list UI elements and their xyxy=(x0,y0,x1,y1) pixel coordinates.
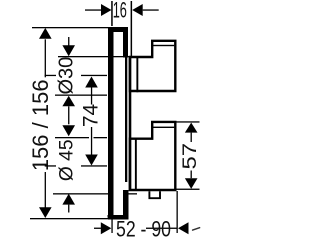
dim 52-90 right tail xyxy=(193,228,200,230)
bottom handle grip seam xyxy=(152,127,174,128)
dim 52-90 left tail xyxy=(94,228,101,229)
dim 16 left extension line xyxy=(111,1,113,26)
svg-text:Ø30: Ø30 xyxy=(56,57,78,95)
svg-text:57: 57 xyxy=(178,143,200,170)
dim 74 line lower xyxy=(91,127,92,155)
dim d30 top tail xyxy=(68,37,69,46)
dim d30 top extension line xyxy=(58,56,129,57)
dim d45 bottom arrow xyxy=(62,194,75,205)
svg-text:156 / 156: 156 / 156 xyxy=(28,79,53,171)
dim 52-90 line through 90 xyxy=(146,228,177,229)
bottom handle seam xyxy=(135,138,137,191)
handle sleeve line xyxy=(129,57,132,192)
dim 74 top extension line xyxy=(45,75,56,76)
shared tail d30-d45 xyxy=(68,106,69,124)
dim 16 left tail xyxy=(85,9,101,10)
escutcheon plate front edge thick bottom xyxy=(123,190,129,220)
escutcheon plate top edge xyxy=(108,27,128,32)
dim 156 bottom extension line xyxy=(30,218,110,219)
top handle grip seam xyxy=(152,45,174,46)
dim 57 top extension line xyxy=(177,121,200,122)
dim 74 bottom extension line xyxy=(45,165,56,166)
svg-text:52 - 90: 52 - 90 xyxy=(116,217,171,240)
dim 156 line lower xyxy=(45,172,46,208)
dim 52-90 right arrow xyxy=(178,222,189,234)
bottom handle outline xyxy=(130,122,175,190)
dim 156 top extension line xyxy=(32,27,113,28)
escutcheon plate bottom edge xyxy=(108,215,129,220)
dim d45 bottom tail xyxy=(68,205,69,213)
dim 57 line lower xyxy=(191,171,192,179)
dim d45 top extension line xyxy=(55,137,89,138)
dim 156 top arrow xyxy=(39,28,52,39)
dim 52-90 left arrow xyxy=(101,222,112,234)
dim d45 bottom extension line xyxy=(53,193,108,194)
dim 57 top arrow xyxy=(185,123,198,133)
top handle seam xyxy=(136,57,138,93)
dim 16 right arrow xyxy=(132,4,143,16)
dim 57 bottom arrow xyxy=(185,178,198,189)
escutcheon plate front edge thin middle xyxy=(125,50,127,182)
dim 16 right extension line xyxy=(131,1,133,56)
dim 16 right tail xyxy=(143,9,159,10)
dim 74 top arrow xyxy=(85,77,98,88)
dim 156 bottom arrow xyxy=(39,207,52,218)
escutcheon plate front edge thick top xyxy=(123,27,128,58)
dim d30 top arrow xyxy=(62,45,75,56)
dim 52-90 left extension line xyxy=(111,220,112,234)
bottom handle tab xyxy=(149,191,160,198)
dim 57 bottom extension line xyxy=(177,189,200,190)
dim d30 bottom extension line xyxy=(55,95,107,96)
dim d30 bottom arrow xyxy=(62,96,75,107)
dim 74 bottom arrow xyxy=(85,155,98,166)
svg-text:Ø 45: Ø 45 xyxy=(56,139,77,181)
dim d45 bottom extension line stub xyxy=(129,193,138,194)
svg-text:74: 74 xyxy=(80,104,103,128)
dim 74 line upper xyxy=(91,88,92,105)
dim 16 left arrow xyxy=(101,4,112,16)
escutcheon plate back edge xyxy=(108,27,114,220)
dim 52-90 right extension line xyxy=(177,191,178,233)
svg-text:16: 16 xyxy=(113,0,127,22)
dim d45 top arrow xyxy=(62,125,75,136)
dim 156 line upper xyxy=(45,39,46,77)
dim 57 line upper xyxy=(191,133,192,142)
top handle outline xyxy=(130,41,175,91)
